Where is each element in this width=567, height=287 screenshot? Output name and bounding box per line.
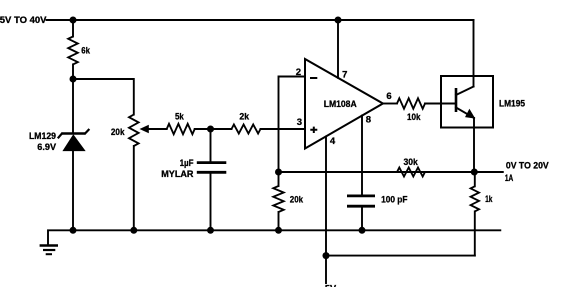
wire pin 7 to top rail [337, 20, 339, 78]
emitter arrowhead [465, 109, 475, 119]
svg-text:1k: 1k [485, 194, 493, 205]
resistor 2k [232, 125, 261, 134]
wire output node to 1k [474, 172, 476, 186]
wire zener anode to ground rail [72, 151, 74, 231]
svg-text:4: 4 [330, 136, 336, 147]
node wiper / mylar capacitor [207, 126, 214, 133]
wire 2k to op-amp pin 3 [261, 128, 306, 130]
potentiometer 20k [129, 115, 139, 146]
resistor 5k [167, 124, 195, 134]
wire top supply rail [47, 19, 474, 21]
node zener / ground rail [70, 227, 77, 234]
transistor base bar [455, 88, 458, 112]
svg-text:6k: 6k [81, 46, 90, 57]
zener diode LM129 6.9V cathode bar [62, 132, 85, 134]
svg-text:20k: 20k [111, 127, 125, 138]
svg-text:7: 7 [342, 70, 347, 81]
wire 1k bottom down to -5V rail [474, 211, 476, 255]
wire output stub [474, 171, 503, 173]
node 6k / pot row [70, 76, 77, 83]
svg-text:1µF: 1µF [180, 158, 194, 169]
node pot / ground rail [130, 227, 137, 234]
svg-text:20k: 20k [290, 195, 304, 206]
svg-text:2k: 2k [239, 112, 249, 123]
node -5V rail / pin 4 line [323, 252, 330, 259]
wire collector up to top rail [473, 20, 475, 87]
minus sign pin 2 input [310, 77, 317, 79]
svg-text:100 pF: 100 pF [381, 195, 408, 206]
svg-text:MYLAR: MYLAR [161, 169, 193, 180]
capacitor 1uF mylar top lead [210, 129, 212, 162]
svg-text:1A: 1A [505, 173, 513, 184]
transistor emitter stroke [456, 108, 474, 119]
capacitor 100 pF bottom lead [361, 206, 363, 230]
node feedback junction [275, 169, 282, 176]
capacitor 100 pF plates [347, 194, 375, 197]
wire pin 4 down to -5V [325, 136, 327, 283]
svg-text:LM129: LM129 [29, 131, 56, 142]
svg-text:25V TO 40V: 25V TO 40V [0, 15, 47, 26]
node top rail / 6k [70, 17, 77, 24]
resistor 1k [471, 186, 479, 211]
wire 10k to transistor base [425, 103, 456, 105]
wire 5k to node [195, 128, 232, 130]
transistor Q1 LM195 package box [441, 76, 493, 128]
ground symbol [40, 246, 58, 255]
svg-text:LM195: LM195 [499, 99, 526, 110]
node 20k / ground rail [275, 227, 282, 234]
resistor 6k [68, 37, 78, 65]
wire 6k top lead [72, 20, 74, 37]
wire op-amp output pin 6 [383, 103, 397, 105]
resistor 30k [397, 168, 425, 177]
svg-text:0V TO 20V: 0V TO 20V [506, 161, 549, 172]
svg-text:−5V: −5V [320, 284, 337, 287]
wire ground rail [48, 230, 500, 245]
svg-text:3: 3 [297, 117, 302, 128]
capacitor 1uF plates [197, 161, 227, 164]
svg-text:LM108A: LM108A [324, 99, 357, 110]
svg-text:8: 8 [366, 115, 371, 126]
pot wiper arrow [148, 128, 167, 130]
plus sign pin 3 input [310, 127, 317, 133]
node 100pF / ground rail [359, 227, 366, 234]
svg-text:30k: 30k [404, 157, 419, 168]
zener anode triangle [64, 135, 85, 150]
svg-text:10k: 10k [407, 112, 421, 123]
wire node row over to pot top [73, 79, 134, 115]
node output junction [471, 169, 478, 176]
node top rail / pin 7 [335, 17, 342, 24]
op-amp U1 LM108A triangle [305, 59, 383, 149]
resistor 10k [397, 98, 425, 108]
resistor 20k feedback [273, 186, 283, 212]
wire -5V rail [326, 255, 475, 257]
wire pin 2 to feedback node [279, 77, 306, 173]
capacitor 1uF bottom lead [210, 172, 212, 230]
wire 6k bottom to zener cathode [72, 64, 74, 133]
svg-text:6.9V: 6.9V [37, 142, 56, 153]
svg-text:6: 6 [386, 91, 391, 102]
svg-text:5k: 5k [175, 112, 184, 123]
wire pot bottom to ground rail [133, 146, 135, 230]
wire feedback row to output node [279, 171, 475, 173]
wire pin 8 down to 100pF [361, 116, 363, 195]
node mylar / ground rail [207, 227, 214, 234]
transistor collector stroke [456, 87, 474, 96]
wire 20k leads [278, 172, 280, 230]
wire emitter down to output node [473, 118, 475, 172]
